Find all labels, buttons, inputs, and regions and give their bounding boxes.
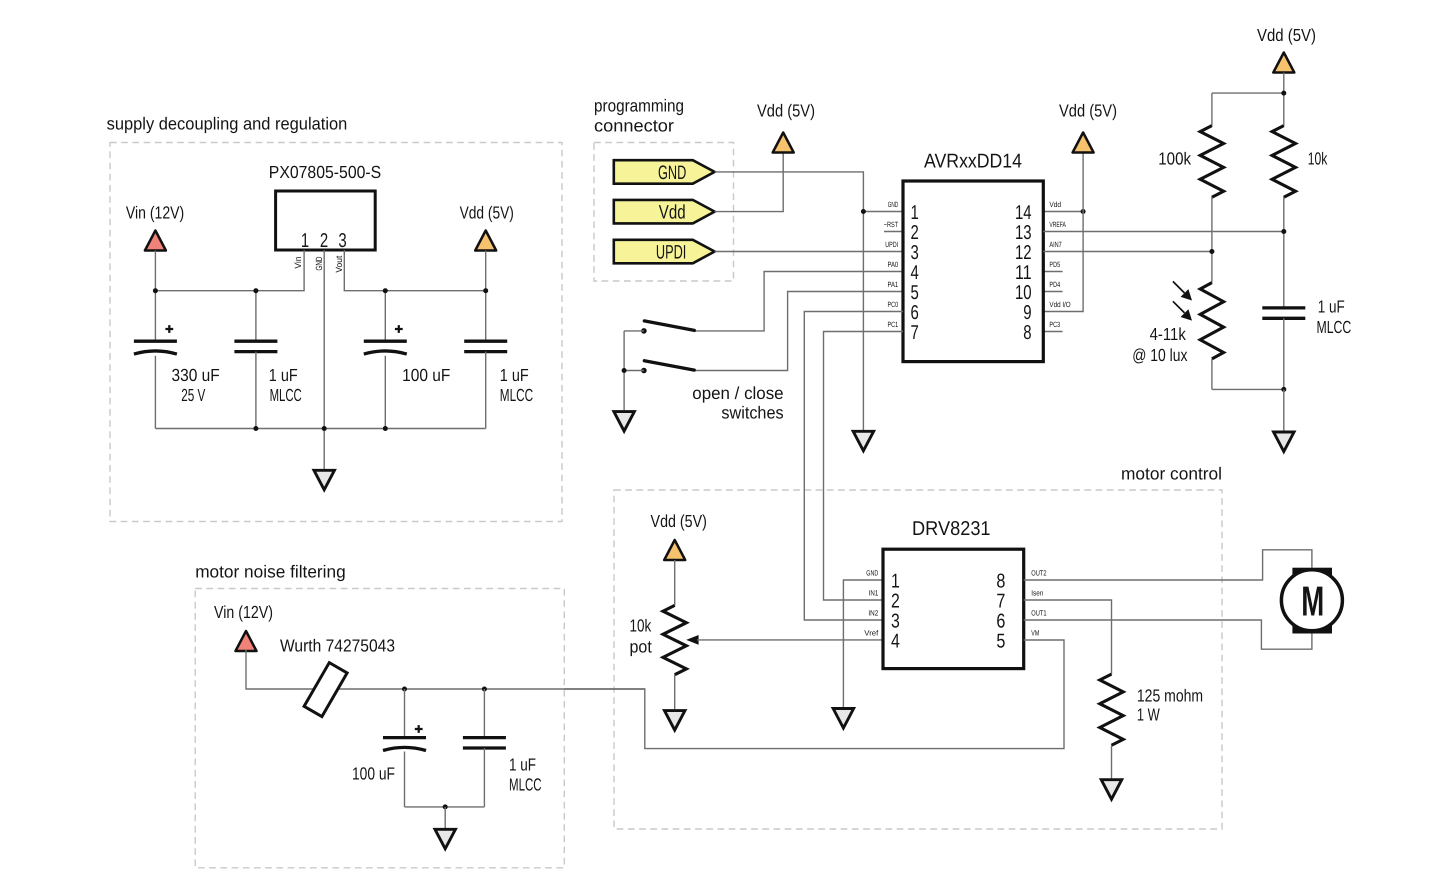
junction output rail at 100uF cap — [383, 288, 388, 293]
power symbol Vdd (5V) supply block — [475, 231, 496, 251]
wire AVR pin 10 PD4 stub — [1043, 291, 1062, 293]
svg-text:3: 3 — [891, 610, 900, 632]
svg-text:Vdd: Vdd — [659, 202, 686, 224]
svg-text:UPDI: UPDI — [885, 240, 898, 249]
wire switch 2 terminal to ground vertical — [624, 370, 644, 372]
svg-text:6: 6 — [911, 302, 919, 324]
potentiometer 10k pot element — [663, 605, 686, 674]
svg-text:Vdd I/O: Vdd I/O — [1049, 300, 1070, 309]
svg-text:MLCC: MLCC — [509, 775, 542, 795]
svg-text:Vin: Vin — [293, 257, 303, 269]
junction filter rail at 100uF — [402, 687, 407, 692]
svg-text:125 mohm: 125 mohm — [1137, 686, 1203, 706]
wire LDR bottom to bottom rail — [1211, 359, 1213, 390]
wire 10k bottom to 1uF cap — [1283, 197, 1285, 308]
dashed frame: motor noise filtering block — [195, 589, 564, 868]
svg-text:switches: switches — [721, 403, 783, 423]
svg-text:PD4: PD4 — [1049, 280, 1060, 289]
svg-text:OUT2: OUT2 — [1031, 569, 1046, 578]
svg-text:100k: 100k — [1158, 149, 1191, 169]
wire DRV8231 pin 8 OUT2 to motor top — [1024, 550, 1312, 580]
wire top rail to 100k resistor — [1212, 92, 1284, 94]
wire 330uF bottom to ground bus — [154, 356, 156, 429]
wire DRV8231 pin 1 GND to ground — [843, 580, 883, 707]
wire DRV8231 pin 5 VM to filtered 12V supply — [564, 640, 1064, 749]
wire 1uF output bottom to ground bus — [485, 352, 487, 429]
power symbol Vin (12V) supply block — [145, 231, 166, 251]
power symbol Vin (12V) noise filter — [236, 631, 257, 651]
svg-text:programming: programming — [594, 96, 684, 116]
wire AVR pin 14 Vdd stub — [1043, 211, 1083, 213]
wire AVR pin 2 ~RST stub — [884, 231, 903, 233]
svg-text:DRV8231: DRV8231 — [912, 518, 991, 540]
wire AVR pin 13 VREFA to divider node — [1043, 231, 1284, 233]
wire regulator pin 1 to input rail — [155, 250, 304, 291]
ground symbol sense resistor — [1101, 780, 1122, 800]
svg-text:4: 4 — [911, 262, 919, 284]
ground symbol sensor network — [1274, 432, 1295, 452]
svg-text:OUT1: OUT1 — [1031, 609, 1046, 618]
svg-text:Isen: Isen — [1031, 589, 1043, 598]
svg-text:1 uF: 1 uF — [509, 755, 536, 775]
svg-text:3: 3 — [911, 242, 919, 264]
wire AVR pin 5 PA1 to switch 2 — [694, 292, 903, 371]
dashed frame: supply decoupling and regulation block — [110, 143, 562, 522]
svg-text:9: 9 — [1023, 302, 1031, 324]
svg-text:M: M — [1301, 577, 1324, 624]
svg-text:motor noise filtering: motor noise filtering — [195, 562, 346, 582]
junction ground bus at 100uF — [383, 426, 388, 431]
svg-text:Vdd (5V): Vdd (5V) — [1257, 25, 1316, 45]
svg-text:10: 10 — [1015, 282, 1032, 304]
wire UPDI flag to AVR pin 3 — [715, 251, 903, 253]
svg-text:7: 7 — [996, 590, 1005, 612]
junction filter rail at 1uF — [482, 687, 487, 692]
svg-text:MLCC: MLCC — [500, 385, 533, 405]
wire Vdd down through top rail to 10k resistor — [1283, 73, 1285, 126]
svg-text:1: 1 — [301, 230, 309, 252]
junction GND net at AVR pin 1 — [861, 209, 866, 214]
switch 2 pivot terminal dot — [641, 368, 647, 374]
svg-text:1: 1 — [911, 202, 919, 224]
svg-text:~RST: ~RST — [884, 220, 899, 229]
svg-text:3: 3 — [338, 230, 346, 252]
wire 100uF output cap top drop — [384, 291, 386, 342]
photoresistor LDR 4-11k — [1200, 283, 1223, 359]
svg-text:10k: 10k — [1308, 149, 1328, 169]
wire 100k top drop — [1211, 93, 1213, 126]
connector flag Vdd — [614, 200, 715, 224]
wire switches ground vertical — [623, 331, 625, 410]
wire 100uF bottom to ground bus — [384, 356, 386, 429]
svg-text:GND: GND — [314, 256, 324, 270]
wire 1uF filter bottom to ground rail — [483, 748, 485, 807]
svg-text:1 uF: 1 uF — [269, 365, 298, 385]
wire AVR pin 6 PC0 to DRV8231 IN2 — [804, 312, 903, 621]
wire wiper to DRV8231 pin 4 Vref — [697, 639, 883, 641]
junction filter ground rail — [443, 804, 448, 809]
potentiometer wiper arrow — [686, 635, 698, 645]
wire DRV8231 pin 6 OUT1 to motor bottom — [1024, 620, 1312, 649]
regulator U1 PX07805-500-S body — [276, 191, 376, 250]
svg-text:MLCC: MLCC — [1317, 317, 1352, 337]
svg-text:330 uF: 330 uF — [172, 365, 220, 385]
svg-text:Wurth 74275043: Wurth 74275043 — [280, 636, 395, 656]
svg-text:VREFA: VREFA — [1049, 220, 1066, 229]
svg-text:GND: GND — [866, 569, 878, 578]
dashed frame: programming connector block — [594, 143, 734, 282]
polarity plus sign for 100uF filter cap — [415, 725, 423, 733]
svg-text:2: 2 — [891, 590, 900, 612]
IC U2 AVRxxDD14 body — [903, 181, 1043, 362]
connector flag UPDI — [614, 240, 715, 263]
svg-text:PA0: PA0 — [888, 260, 899, 269]
svg-text:motor control: motor control — [1121, 464, 1222, 484]
wire Vdd flag to Vdd power — [715, 153, 784, 212]
wire AVR pin 1 GND stub — [863, 211, 903, 213]
motor M1 body circle — [1281, 570, 1342, 631]
ground symbol potentiometer — [664, 711, 685, 731]
ground symbol switches — [614, 412, 635, 432]
svg-text:8: 8 — [1023, 322, 1031, 344]
svg-text:Vref: Vref — [864, 629, 879, 638]
wire AVR pin 7 PC1 to DRV8231 IN1 — [824, 332, 904, 601]
svg-text:5: 5 — [911, 282, 919, 304]
svg-text:1 W: 1 W — [1137, 705, 1160, 725]
wire 1uF input bottom to ground bus — [255, 352, 257, 429]
svg-text:6: 6 — [996, 610, 1005, 632]
svg-text:100 uF: 100 uF — [402, 365, 450, 385]
svg-text:Vdd: Vdd — [1049, 200, 1061, 209]
capacitor 100uF filter (polarized) — [383, 736, 426, 739]
wire Vin vertical from power symbol to 330uF cap — [154, 251, 156, 342]
switch 1 pivot terminal dot — [641, 328, 647, 334]
junction ground bus at 1uF input — [253, 426, 258, 431]
svg-text:Vdd (5V): Vdd (5V) — [1059, 101, 1117, 121]
LDR light arrow 2 — [1173, 301, 1185, 313]
wire 100uF filter bottom to ground rail — [404, 752, 406, 807]
ground symbol DRV8231 GND — [833, 709, 854, 729]
wire AVR pin 4 PA0 to switch 1 — [694, 272, 903, 331]
power symbol Vdd (5V) sensor network — [1273, 53, 1294, 73]
wire 100uF filter cap top drop — [404, 689, 406, 738]
switch 2 blade — [644, 361, 694, 370]
wire AVR pin 12 AIN7 to LDR node — [1043, 251, 1212, 253]
wire Vdd to potentiometer top — [674, 560, 676, 605]
resistor 10k — [1272, 126, 1295, 198]
junction input rail at 1uF cap — [253, 288, 258, 293]
capacitor 1uF MLCC sensor filter — [1262, 308, 1305, 318]
capacitor 100uF (polarized) — [364, 340, 407, 343]
svg-text:12: 12 — [1015, 242, 1032, 264]
junction Vdd net at AVR pin 14 — [1081, 209, 1086, 214]
junction output rail at Vdd — [483, 288, 488, 293]
svg-text:Vdd (5V): Vdd (5V) — [757, 101, 815, 121]
polarity plus sign for 100uF cap — [395, 325, 403, 333]
svg-text:PC0: PC0 — [888, 300, 899, 309]
power symbol Vdd (5V) at AVR — [1073, 133, 1094, 153]
wire regulator pin 2 GND down to ground — [323, 250, 325, 469]
svg-text:IN2: IN2 — [868, 609, 878, 618]
wire filter ground rail to ground symbol — [444, 807, 446, 828]
svg-text:Vin (12V): Vin (12V) — [126, 203, 184, 223]
wire 1uF MLCC input cap top drop — [255, 291, 257, 342]
svg-text:1 uF: 1 uF — [500, 365, 529, 385]
svg-text:14: 14 — [1015, 202, 1032, 224]
svg-text:2: 2 — [911, 222, 919, 244]
IC U3 DRV8231 body — [883, 549, 1024, 668]
svg-text:2: 2 — [320, 230, 328, 252]
wire AVR pin 8 PC3 stub — [1043, 331, 1062, 333]
ground symbol noise filter — [435, 829, 456, 849]
motor M1 terminal block — [1292, 568, 1332, 634]
svg-text:@ 10 lux: @ 10 lux — [1132, 345, 1187, 365]
junction AIN7 node — [1209, 249, 1214, 254]
svg-text:Vin (12V): Vin (12V) — [214, 602, 273, 622]
wire bottom rail to ground — [1283, 389, 1285, 430]
svg-text:open / close: open / close — [692, 383, 783, 403]
capacitor 1uF MLCC filter — [463, 738, 506, 748]
wire GND flag to ground net vertical — [715, 172, 864, 430]
wire AVR pin 9 Vdd I/O to Vdd power — [1043, 153, 1083, 312]
wire regulator pin 3 to output rail — [344, 250, 485, 291]
ground symbol supply block — [314, 470, 335, 490]
wire Vdd vertical from power symbol to 1uF cap — [485, 251, 487, 342]
svg-text:PX07805-500-S: PX07805-500-S — [269, 162, 381, 182]
svg-text:Vout: Vout — [334, 255, 344, 272]
wire potentiometer bottom to ground — [674, 675, 676, 710]
wire ground bus of supply block — [155, 428, 485, 430]
svg-text:Vdd (5V): Vdd (5V) — [651, 511, 707, 531]
junction switches ground vertical — [622, 368, 627, 373]
resistor 100k — [1200, 126, 1223, 198]
svg-text:8: 8 — [996, 570, 1005, 592]
svg-text:1 uF: 1 uF — [1318, 297, 1345, 317]
polarity plus sign for 330uF cap — [165, 325, 173, 333]
capacitor 330uF 25V (polarized) — [134, 340, 177, 343]
wire filter rail to motor control block — [484, 688, 644, 690]
connector flag GND — [614, 160, 715, 184]
svg-text:AIN7: AIN7 — [1049, 240, 1061, 249]
wire 1uF cap bottom to bottom rail — [1283, 318, 1285, 389]
svg-text:VM: VM — [1031, 629, 1039, 638]
svg-text:100 uF: 100 uF — [352, 764, 395, 784]
wire Vin to filter rail — [246, 650, 484, 689]
svg-text:4-11k: 4-11k — [1150, 324, 1186, 344]
switch 1 blade — [644, 321, 694, 331]
capacitor 1uF MLCC (output side) — [464, 341, 507, 351]
wire 1uF filter cap top drop — [483, 689, 485, 738]
ferrite bead Wurth 74275043 — [304, 663, 347, 717]
svg-text:10k: 10k — [630, 616, 652, 636]
svg-text:PC1: PC1 — [888, 320, 899, 329]
svg-text:PA1: PA1 — [888, 280, 899, 289]
svg-text:connector: connector — [594, 116, 674, 136]
svg-text:Vdd (5V): Vdd (5V) — [460, 203, 514, 223]
wire filter ground rail — [405, 806, 485, 808]
svg-text:IN1: IN1 — [869, 589, 879, 598]
svg-text:PC3: PC3 — [1049, 320, 1060, 329]
dashed frame: motor control block — [614, 490, 1222, 829]
LDR light arrow 1 — [1173, 281, 1185, 293]
junction sensor bottom rail — [1281, 387, 1286, 392]
capacitor 1uF MLCC (input side) — [234, 341, 277, 351]
resistor 125 mohm 1W sense — [1100, 674, 1123, 745]
junction ground bus at regulator GND — [322, 426, 327, 431]
svg-text:AVRxxDD14: AVRxxDD14 — [924, 151, 1022, 173]
svg-text:1: 1 — [891, 570, 900, 592]
junction VREFA node — [1281, 229, 1286, 234]
svg-text:MLCC: MLCC — [270, 385, 302, 405]
wire sensor bottom rail — [1212, 388, 1284, 390]
svg-text:PD5: PD5 — [1049, 260, 1060, 269]
svg-text:7: 7 — [911, 322, 919, 344]
svg-text:4: 4 — [891, 630, 900, 652]
power symbol Vdd (5V) motor control — [664, 540, 685, 560]
svg-text:GND: GND — [658, 162, 686, 184]
junction top rail at Vdd — [1281, 91, 1286, 96]
wire DRV8231 pin 7 Isen to sense resistor — [1024, 600, 1112, 674]
wire switch 1 terminal to ground vertical — [624, 330, 644, 332]
power symbol Vdd (5V) programming — [773, 133, 794, 153]
ground symbol AVR GND net — [853, 431, 874, 451]
svg-text:5: 5 — [996, 630, 1005, 652]
svg-text:UPDI: UPDI — [656, 242, 686, 264]
wire 100k bottom to LDR top — [1211, 197, 1213, 283]
wire sense resistor to ground — [1111, 745, 1113, 778]
junction input rail at Vin — [153, 288, 158, 293]
svg-text:supply decoupling and regulati: supply decoupling and regulation — [107, 114, 348, 134]
svg-text:11: 11 — [1015, 262, 1032, 284]
svg-text:25 V: 25 V — [181, 385, 205, 405]
svg-text:13: 13 — [1015, 222, 1032, 244]
svg-text:pot: pot — [630, 637, 652, 657]
svg-text:GND: GND — [888, 200, 899, 209]
wire AVR pin 11 PD5 stub — [1043, 271, 1062, 273]
